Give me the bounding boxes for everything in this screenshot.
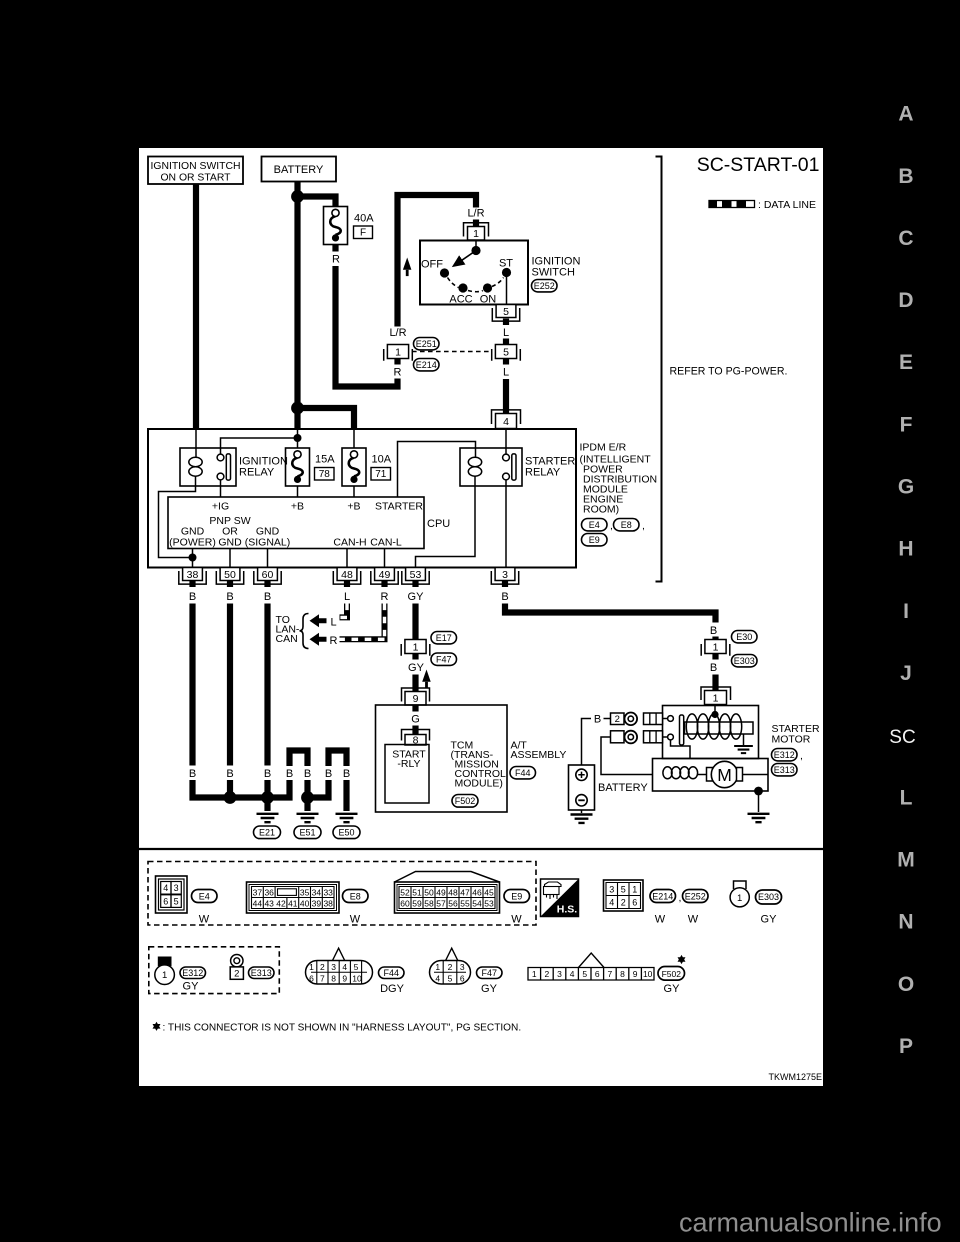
svg-text:F44: F44 (384, 968, 400, 978)
svg-text:E9: E9 (589, 535, 600, 545)
svg-text:2: 2 (320, 962, 325, 972)
svg-text:ASSEMBLY: ASSEMBLY (511, 749, 567, 761)
wire G inside A/T (412, 705, 418, 712)
svg-text:F502: F502 (662, 969, 682, 979)
svg-text:4: 4 (570, 969, 575, 979)
svg-text:RELAY: RELAY (239, 467, 275, 479)
svg-text:42: 42 (276, 898, 286, 908)
ground bus pins 38/50/60 (193, 780, 290, 798)
connector 1 E30/E303 (701, 640, 730, 656)
svg-text:W: W (199, 914, 210, 926)
svg-text:3: 3 (460, 962, 465, 972)
connector 8 TCM (402, 730, 430, 741)
svg-text:B: B (286, 768, 293, 780)
svg-text:E4: E4 (199, 891, 210, 901)
svg-text:2: 2 (621, 897, 626, 907)
oval E303 (732, 655, 758, 667)
oval E9 (582, 534, 608, 546)
svg-text:53: 53 (410, 569, 422, 581)
svg-text:15A: 15A (315, 454, 335, 466)
wire dashed switch position arc OFF-ACC-ON-ST (448, 278, 504, 292)
wire to starter ground (758, 791, 760, 812)
IPDM E/R box (148, 429, 576, 568)
svg-text:ROOM): ROOM) (583, 504, 619, 516)
svg-text:5: 5 (621, 884, 626, 894)
svg-text:1: 1 (737, 893, 742, 904)
wire battery feed inside IPDM to 15A fuse (297, 429, 299, 448)
svg-text:E51: E51 (299, 828, 315, 838)
svg-text:E8: E8 (350, 891, 361, 901)
svg-text:57: 57 (436, 898, 446, 908)
svg-text:REFER TO PG-POWER.: REFER TO PG-POWER. (670, 366, 788, 378)
brace LAN-CAN (300, 614, 309, 649)
svg-text:1: 1 (713, 693, 719, 705)
svg-text:B: B (304, 768, 311, 780)
solenoid contact blade (680, 715, 684, 745)
svg-text:E252: E252 (685, 891, 706, 901)
node ST (502, 268, 511, 277)
motor brush left (707, 768, 713, 782)
motor brush right (737, 768, 743, 782)
node motor ground junction (754, 787, 763, 796)
ground battery (571, 815, 593, 823)
svg-text:+B: +B (291, 501, 304, 513)
svg-text:E312: E312 (182, 968, 203, 978)
switch rotor arm arrow toward OFF (454, 251, 476, 266)
svg-text:W: W (655, 914, 666, 926)
wire stub below, label L (503, 359, 509, 365)
svg-text:R: R (330, 635, 338, 647)
svg-text:MOTOR: MOTOR (772, 734, 811, 746)
oval E252 (532, 280, 558, 292)
battery positive feed terminal B (582, 719, 592, 766)
svg-text:R: R (332, 254, 340, 266)
ring terminal 1 (625, 713, 638, 726)
svg-text:E303: E303 (758, 892, 779, 902)
wire battery main feed down to IPDM 15A fuse (294, 182, 300, 430)
battery supply box (569, 765, 595, 810)
wire ST to pin 5 (506, 277, 508, 305)
svg-text:7: 7 (320, 973, 325, 983)
ignition switch box E252 (420, 241, 528, 305)
svg-text:E8: E8 (621, 520, 632, 530)
svg-text:B: B (264, 591, 271, 603)
svg-text:E214: E214 (652, 891, 673, 901)
node OFF (440, 268, 449, 277)
svg-text:L: L (330, 616, 336, 628)
wire fuse 40A output stub, label R (332, 245, 338, 252)
wire B run pin 3 to E30 (505, 604, 716, 623)
svg-text:3: 3 (502, 569, 508, 581)
wire GY below connector (412, 654, 418, 660)
wire starter relay coil to pin 53 (416, 476, 476, 568)
svg-text:B: B (226, 768, 233, 780)
svg-text:8: 8 (620, 969, 625, 979)
svg-text:55: 55 (460, 898, 470, 908)
wire battery to ground (581, 810, 583, 813)
ground solenoid internal (734, 746, 753, 753)
svg-text:40A: 40A (354, 213, 374, 225)
svg-text:10A: 10A (372, 454, 392, 466)
wire R run to connector E251 column (336, 266, 398, 387)
svg-text:71: 71 (375, 469, 387, 480)
svg-text:B: B (325, 768, 332, 780)
oval E313 (772, 764, 798, 776)
oval E9 legend (504, 890, 530, 903)
ring terminal 2 (625, 731, 638, 744)
svg-text:B: B (189, 591, 196, 603)
svg-text:B: B (343, 768, 350, 780)
svg-text:1: 1 (435, 962, 440, 972)
svg-text:54: 54 (472, 898, 482, 908)
svg-text:STARTER: STARTER (375, 501, 423, 513)
svg-text:SWITCH: SWITCH (532, 267, 575, 279)
svg-text:F44: F44 (515, 768, 531, 778)
svg-text:H.S.: H.S. (557, 904, 578, 916)
svg-text:44: 44 (253, 898, 263, 908)
wire branch battery to 40A fuse (298, 197, 336, 207)
oval E312 legend (180, 967, 206, 979)
svg-text:36: 36 (264, 887, 274, 897)
svg-text:5: 5 (448, 973, 453, 983)
connector E312 face (158, 957, 171, 966)
connector 1 E251/E214 (384, 345, 413, 361)
stud block 2 (644, 731, 663, 743)
svg-text:GY: GY (481, 983, 498, 995)
svg-text:6: 6 (632, 897, 637, 907)
svg-text:45: 45 (484, 887, 494, 897)
svg-text:5: 5 (503, 347, 509, 359)
svg-text:3: 3 (174, 883, 179, 893)
svg-text:3: 3 (557, 969, 562, 979)
ground bus segment 2 (308, 780, 329, 798)
separator rule (139, 848, 823, 850)
svg-text:: DATA LINE: : DATA LINE (758, 199, 816, 211)
svg-text:CPU: CPU (427, 518, 450, 530)
oval F47 (431, 653, 457, 665)
connector 5 E252/E214 inline (492, 345, 521, 361)
starter motor lower box (653, 759, 769, 792)
svg-text:O: O (898, 973, 914, 996)
connector E9 face (395, 872, 500, 914)
oval E214 legend (650, 890, 676, 903)
svg-text:60: 60 (400, 898, 410, 908)
svg-text:6: 6 (309, 973, 314, 983)
svg-text:GY: GY (664, 983, 681, 995)
svg-text:38: 38 (187, 569, 199, 581)
svg-text:58: 58 (424, 898, 434, 908)
wire lower terminal to motor section (671, 740, 691, 759)
svg-text:78: 78 (319, 469, 331, 480)
svg-text:OFF: OFF (421, 259, 443, 271)
svg-text:37: 37 (253, 887, 263, 897)
svg-text:GY: GY (183, 981, 200, 993)
solenoid plunger core (685, 722, 754, 734)
svg-text:,: , (642, 520, 645, 532)
connector F44 face (306, 948, 373, 984)
wire ignition-switch feed to IPDM ignition relay coil (193, 184, 199, 429)
svg-text:7: 7 (608, 969, 613, 979)
battery box BATTERY (262, 157, 337, 182)
svg-text:(POWER): (POWER) (169, 537, 216, 549)
svg-text:CAN-L: CAN-L (370, 537, 402, 549)
svg-text:BATTERY: BATTERY (598, 782, 648, 794)
oval F44 (510, 767, 536, 779)
svg-text:H: H (898, 538, 913, 561)
svg-text:38: 38 (323, 898, 333, 908)
wire PNP SW to pin 50 (229, 549, 231, 568)
svg-text:J: J (900, 662, 912, 685)
pin 49 (371, 568, 398, 585)
pin 3 (491, 568, 518, 585)
wire brush to case (743, 774, 769, 776)
svg-text:GND: GND (218, 537, 242, 549)
svg-text:GY: GY (408, 662, 425, 674)
battery negative terminal (576, 795, 587, 806)
pin 60 (254, 568, 281, 585)
connector 5 ignition switch bottom (492, 305, 519, 322)
svg-text:8: 8 (331, 973, 336, 983)
svg-text:B: B (264, 768, 271, 780)
pin 38 (179, 568, 206, 585)
svg-text:E9: E9 (511, 891, 522, 901)
connector F47 face (430, 948, 471, 984)
svg-text:F47: F47 (436, 655, 452, 665)
wire ignition relay coil to ground junction (159, 476, 196, 558)
pin 48 (333, 568, 360, 585)
wire stub into ignition switch pin 1 (473, 220, 479, 227)
wire solenoid to internal ground (743, 734, 745, 746)
svg-text:E4: E4 (589, 520, 600, 530)
stud block 1 (644, 713, 663, 725)
wire field coil to brush (698, 774, 707, 776)
svg-text:W: W (688, 914, 699, 926)
svg-text:E: E (899, 351, 913, 374)
footnote star (153, 1022, 161, 1031)
svg-text:9: 9 (633, 969, 638, 979)
wire R stub into connector 1 (394, 359, 400, 365)
svg-text:9: 9 (342, 973, 347, 983)
svg-text:B: B (710, 625, 717, 637)
svg-text:L/R: L/R (389, 327, 406, 339)
svg-text:R: R (394, 367, 402, 379)
connector E4 face (156, 876, 188, 913)
svg-text:W: W (511, 914, 522, 926)
svg-text:2: 2 (615, 714, 620, 725)
svg-text:F502: F502 (455, 796, 476, 806)
sidebar index letters (897, 103, 915, 1058)
svg-text:L/R: L/R (467, 208, 484, 220)
arrow current direction up beside GY wire (422, 670, 431, 682)
svg-text:: THIS CONNECTOR IS NOT SHOWN: : THIS CONNECTOR IS NOT SHOWN IN "HARNES… (163, 1023, 522, 1034)
svg-text:L: L (900, 786, 913, 809)
svg-text:1: 1 (162, 970, 167, 981)
svg-text:52: 52 (400, 887, 410, 897)
svg-text:-RLY: -RLY (397, 758, 420, 770)
svg-text:51: 51 (412, 887, 422, 897)
wire B pin 38 down (189, 604, 195, 766)
svg-text:ACC: ACC (449, 294, 472, 306)
svg-text:5: 5 (582, 969, 587, 979)
svg-text:47: 47 (460, 887, 470, 897)
svg-text:1: 1 (413, 642, 419, 654)
svg-text:GY: GY (408, 591, 425, 603)
svg-text:I: I (903, 600, 909, 623)
oval F502 (452, 795, 478, 808)
node bus junction E51 (301, 791, 314, 804)
svg-text:M: M (717, 765, 732, 785)
oval F44 legend (379, 967, 405, 979)
starter relay coil (468, 457, 481, 466)
ignition relay box (180, 448, 236, 486)
oval F502 legend (658, 967, 685, 981)
wire GND(SIGNAL) to pin 60 (267, 549, 269, 568)
power feed box IGNITION SWITCH ON OR START (148, 157, 243, 185)
connector 1 starter motor (701, 687, 731, 700)
svg-text:10: 10 (352, 973, 362, 983)
svg-text:E313: E313 (774, 765, 795, 775)
connector E303 face (734, 881, 747, 889)
svg-text:43: 43 (264, 898, 274, 908)
wire stub below pin 5, label L (503, 319, 509, 326)
svg-text:6: 6 (163, 896, 168, 906)
svg-text:E252: E252 (534, 281, 555, 291)
frame bracket right of diagram (656, 157, 662, 582)
svg-text:59: 59 (412, 898, 422, 908)
svg-text:D: D (898, 289, 913, 312)
svg-text:E312: E312 (774, 750, 795, 760)
svg-text:GY: GY (761, 914, 778, 926)
ground E50 (336, 814, 358, 822)
oval E252 legend (683, 890, 709, 903)
connector F502 face (528, 953, 654, 980)
starter motor solenoid box (663, 706, 759, 759)
svg-text:41: 41 (288, 898, 298, 908)
svg-text:G: G (898, 476, 914, 499)
node ON (483, 283, 492, 292)
svg-text:N: N (898, 911, 913, 934)
svg-text:9: 9 (413, 693, 419, 705)
svg-text:(SIGNAL): (SIGNAL) (245, 537, 291, 549)
ground starter motor (748, 814, 770, 822)
starter relay box (460, 448, 522, 486)
connector E313 face (231, 955, 243, 967)
svg-text:carmanualsonline.info: carmanualsonline.info (679, 1208, 942, 1238)
svg-text:6: 6 (595, 969, 600, 979)
svg-text:50: 50 (224, 569, 236, 581)
svg-text:E251: E251 (416, 339, 437, 349)
ignition relay contacts (217, 454, 230, 480)
svg-text:B: B (898, 165, 913, 188)
svg-text:IGNITION SWITCH: IGNITION SWITCH (150, 161, 240, 172)
svg-text:1: 1 (713, 642, 719, 654)
svg-text:4: 4 (163, 883, 168, 893)
svg-text:BATTERY: BATTERY (274, 164, 324, 176)
legend dashed box row 1 (148, 862, 536, 926)
oval E312 (772, 749, 798, 761)
svg-text:RELAY: RELAY (525, 467, 561, 479)
wire B pin 60 down (264, 604, 270, 766)
terminal box row 2 (611, 731, 625, 743)
svg-text:4: 4 (342, 962, 347, 972)
svg-text:1: 1 (632, 884, 637, 894)
svg-text:SC-START-01: SC-START-01 (697, 154, 820, 176)
svg-text:L: L (503, 327, 509, 339)
svg-text:F: F (360, 228, 366, 239)
svg-text:L: L (344, 591, 350, 603)
TCM START-RLY box (385, 745, 429, 804)
svg-text:1: 1 (532, 969, 537, 979)
svg-text:4: 4 (503, 416, 509, 428)
svg-text:4: 4 (609, 897, 614, 907)
svg-text:5: 5 (354, 962, 359, 972)
svg-text:MODULE): MODULE) (455, 778, 503, 790)
connector E214 face (604, 880, 644, 911)
CPU box (168, 497, 424, 549)
fuse 40A F (324, 207, 348, 245)
svg-text:5: 5 (174, 896, 179, 906)
arrow to LAN L (310, 614, 327, 627)
connector 9 TCM top (402, 688, 430, 702)
svg-text:49: 49 (436, 887, 446, 897)
svg-text:E30: E30 (736, 632, 752, 642)
svg-text:60: 60 (262, 569, 274, 581)
svg-text:C: C (898, 227, 913, 250)
wire CAN data line from pin 49 (340, 604, 385, 640)
connector 1 E17/F47 (401, 640, 430, 656)
wire L down to connector 4 (503, 379, 509, 414)
wire pin1 to rotor contact (475, 240, 477, 247)
svg-text:F: F (900, 413, 913, 436)
svg-text:3: 3 (331, 962, 336, 972)
svg-text:E50: E50 (338, 828, 354, 838)
svg-text:M: M (897, 849, 915, 872)
svg-text:33: 33 (323, 887, 333, 897)
solenoid contact terminals (668, 716, 674, 722)
wire starter relay contact to pin 3 (505, 480, 507, 568)
svg-text:IPDM E/R: IPDM E/R (580, 442, 627, 454)
wire CAN-L data line from pin 48 (340, 604, 348, 618)
A/T assembly box (376, 705, 508, 812)
motor M (711, 761, 737, 787)
svg-text:A: A (898, 103, 913, 126)
svg-text:4: 4 (435, 973, 440, 983)
svg-text:5: 5 (503, 306, 509, 318)
svg-text:ON OR START: ON OR START (160, 173, 231, 184)
view icon H.S. (541, 879, 579, 917)
oval E4 (582, 519, 608, 531)
connector E8 face (247, 882, 340, 913)
oval E4 legend (192, 890, 218, 903)
field coil (663, 767, 672, 779)
wire E50 drop (343, 780, 349, 811)
svg-text:48: 48 (448, 887, 458, 897)
svg-text:CAN-H: CAN-H (333, 537, 366, 549)
node solenoid winding top (711, 711, 718, 718)
wire L/R riser to top run and over to ignition switch pin 1 (398, 195, 477, 327)
wire GND(POWER) to pin 38 (192, 549, 194, 568)
svg-text:46: 46 (472, 887, 482, 897)
oval E313 legend (249, 967, 275, 979)
ground E21 (257, 814, 279, 822)
connector 4 IPDM top (492, 410, 521, 424)
svg-text:B: B (501, 591, 508, 603)
svg-text:W: W (350, 914, 361, 926)
wire B below E30 connector (712, 654, 718, 660)
svg-text:ON: ON (480, 294, 497, 306)
ignition relay coil (195, 429, 197, 457)
svg-text:34: 34 (312, 887, 322, 897)
